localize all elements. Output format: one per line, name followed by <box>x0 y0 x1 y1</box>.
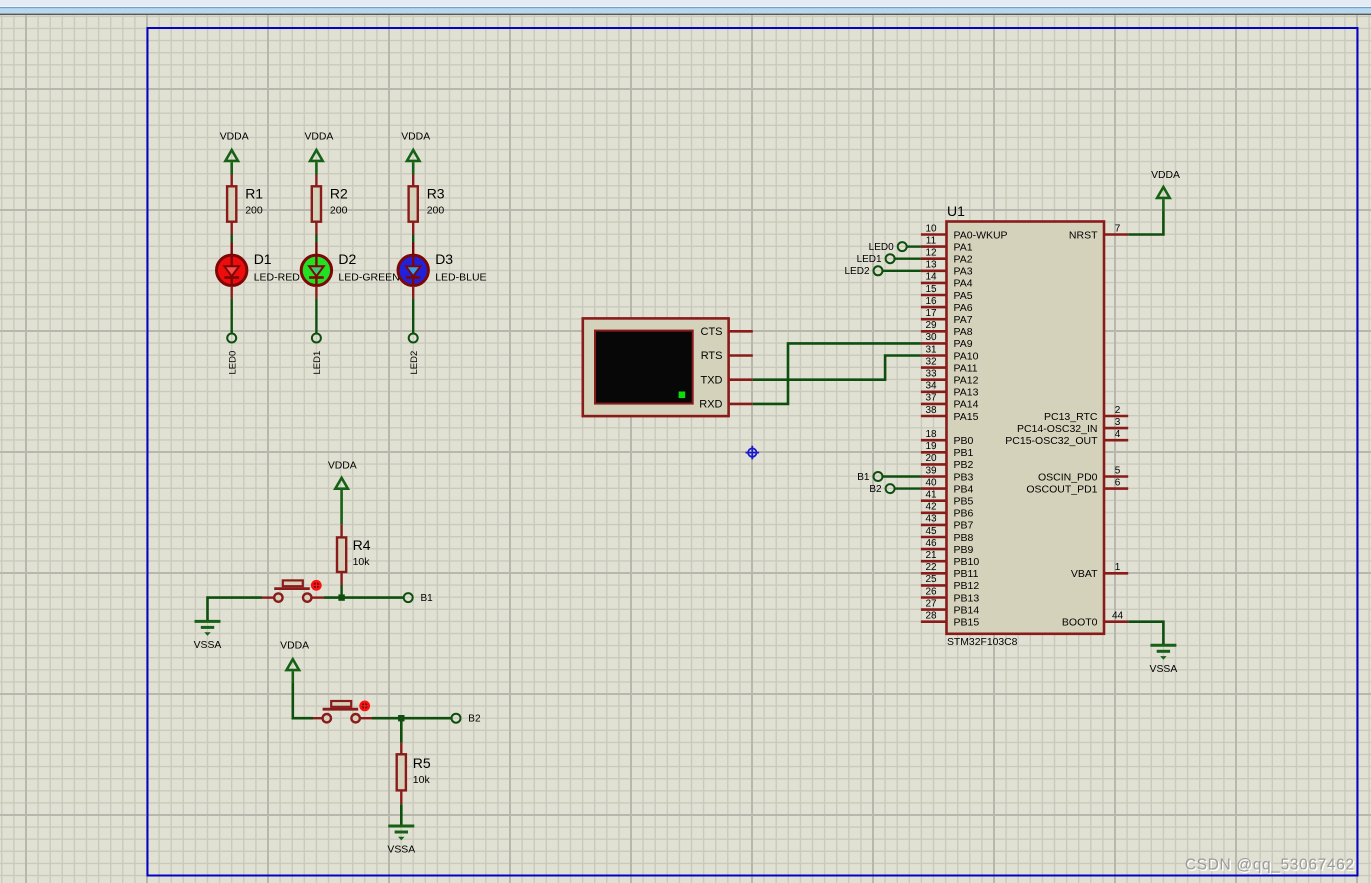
svg-text:RTS: RTS <box>701 350 723 362</box>
svg-text:13: 13 <box>925 260 937 271</box>
wire <box>412 286 414 333</box>
pin RXD (terminal) <box>699 399 753 411</box>
svg-text:PA15: PA15 <box>954 411 979 423</box>
svg-text:PC15-OSC32_OUT: PC15-OSC32_OUT <box>1005 435 1098 447</box>
terminal B2 <box>869 484 894 495</box>
svg-text:PA14: PA14 <box>954 399 979 411</box>
svg-text:PB4: PB4 <box>954 483 974 495</box>
wire <box>315 223 317 243</box>
toolbar strip <box>0 0 1371 15</box>
svg-text:PA7: PA7 <box>954 314 973 326</box>
pin 15 PA5 <box>921 284 973 302</box>
svg-text:PA5: PA5 <box>954 290 973 302</box>
svg-text:LED2: LED2 <box>844 266 869 277</box>
svg-text:25: 25 <box>925 574 937 585</box>
svg-text:41: 41 <box>925 490 937 501</box>
power symbol VDDA (R4 branch) <box>328 460 357 524</box>
svg-text:200: 200 <box>245 205 263 217</box>
pin 39 PB3 <box>921 465 974 483</box>
power symbol VDDA (R3 branch) <box>401 132 430 175</box>
svg-text:TXD: TXD <box>701 374 723 386</box>
svg-text:PA13: PA13 <box>954 387 979 399</box>
pin RTS (terminal) <box>701 350 753 362</box>
terminal LED1 <box>312 334 323 375</box>
svg-text:PB14: PB14 <box>954 604 980 616</box>
pin 22 PB11 <box>921 562 979 580</box>
svg-text:PB12: PB12 <box>954 580 980 592</box>
svg-text:LED1: LED1 <box>857 254 882 265</box>
svg-text:43: 43 <box>925 514 937 525</box>
resistor R2 <box>312 186 348 222</box>
svg-text:LED-GREEN: LED-GREEN <box>338 272 399 284</box>
svg-text:42: 42 <box>925 502 937 513</box>
wire <box>412 175 414 186</box>
svg-text:7: 7 <box>1115 223 1121 234</box>
svg-text:34: 34 <box>925 381 937 392</box>
svg-text:PA8: PA8 <box>954 326 973 338</box>
ground VSSA (R5) <box>387 826 415 856</box>
svg-text:D2: D2 <box>338 251 356 267</box>
svg-text:LED0: LED0 <box>869 242 894 253</box>
LED D2 LED-GREEN <box>301 243 399 287</box>
svg-text:PB2: PB2 <box>954 459 974 471</box>
svg-text:R2: R2 <box>330 186 348 202</box>
svg-text:29: 29 <box>925 320 937 331</box>
pin 1 VBAT <box>1071 562 1128 580</box>
terminal B2 <box>452 714 481 725</box>
svg-text:PB1: PB1 <box>954 447 974 459</box>
svg-text:LED0: LED0 <box>228 351 239 375</box>
svg-text:14: 14 <box>925 272 937 283</box>
power symbol VDDA (NRST) <box>1151 170 1180 211</box>
pin 19 PB1 <box>921 441 974 459</box>
pin 2 PC13_RTC <box>1044 405 1128 423</box>
pin 41 PB5 <box>921 490 974 508</box>
svg-text:STM32F103C8: STM32F103C8 <box>947 637 1018 648</box>
svg-text:PA4: PA4 <box>954 278 973 290</box>
svg-text:PC14-OSC32_IN: PC14-OSC32_IN <box>1017 423 1098 435</box>
power symbol VDDA (R1 branch) <box>220 132 249 175</box>
pin 5 OSCIN_PD0 <box>1038 465 1128 483</box>
svg-text:PB15: PB15 <box>954 617 980 629</box>
wire (ground leg to button row) <box>208 598 263 622</box>
svg-text:LED-BLUE: LED-BLUE <box>435 272 486 284</box>
svg-text:21: 21 <box>925 550 937 561</box>
terminal LED0 <box>227 334 238 375</box>
svg-text:26: 26 <box>925 586 937 597</box>
svg-text:B2: B2 <box>869 484 882 495</box>
pin 18 PB0 <box>921 429 974 447</box>
wire <box>230 175 232 186</box>
wire (junction to R5) <box>400 718 403 742</box>
svg-text:R4: R4 <box>353 537 371 553</box>
svg-text:BOOT0: BOOT0 <box>1062 617 1098 629</box>
pin 37 PA14 <box>921 393 979 411</box>
svg-text:40: 40 <box>925 477 937 488</box>
wire <box>313 717 372 719</box>
wire <box>340 573 342 598</box>
wire (button to B2 terminal) <box>372 717 451 720</box>
wire <box>895 258 921 260</box>
push button (B1) <box>274 580 322 602</box>
svg-text:VDDA: VDDA <box>328 460 357 471</box>
svg-text:VBAT: VBAT <box>1071 568 1098 580</box>
origin marker <box>746 446 760 460</box>
svg-text:VDDA: VDDA <box>304 132 333 143</box>
svg-text:CTS: CTS <box>701 326 723 338</box>
svg-text:6: 6 <box>1115 477 1121 488</box>
LED D1 LED-RED <box>217 243 301 287</box>
pin 42 PB6 <box>921 502 974 520</box>
pin 43 PB7 <box>921 514 974 532</box>
wire <box>400 743 402 754</box>
svg-text:22: 22 <box>925 562 937 573</box>
svg-text:OSCOUT_PD1: OSCOUT_PD1 <box>1026 483 1097 495</box>
pin 3 PC14-OSC32_IN <box>1017 417 1128 435</box>
pin 28 PB15 <box>921 611 979 629</box>
pin 17 PA7 <box>921 308 973 326</box>
svg-text:VSSA: VSSA <box>194 640 222 651</box>
svg-text:R5: R5 <box>413 755 431 771</box>
pin 20 PB2 <box>921 453 974 471</box>
terminal B1 <box>404 593 433 604</box>
terminal B1 <box>857 472 882 483</box>
wire <box>315 175 317 186</box>
push button (B2) <box>323 701 371 723</box>
power symbol VDDA (B2 branch) <box>280 641 309 683</box>
pin 46 PB9 <box>921 538 974 556</box>
svg-text:PA6: PA6 <box>954 302 973 314</box>
svg-text:31: 31 <box>925 344 937 355</box>
svg-text:44: 44 <box>1112 611 1124 622</box>
svg-text:200: 200 <box>427 205 445 217</box>
pin 4 PC15-OSC32_OUT <box>1005 429 1128 447</box>
svg-text:PB7: PB7 <box>954 520 974 532</box>
pin 34 PA13 <box>921 381 979 399</box>
pin 26 PB13 <box>921 586 979 604</box>
svg-text:1: 1 <box>1115 562 1121 573</box>
svg-text:10k: 10k <box>353 556 371 568</box>
microcontroller U1 STM32F103C8 <box>947 203 1105 648</box>
svg-text:U1: U1 <box>947 203 965 219</box>
svg-text:20: 20 <box>925 453 937 464</box>
svg-text:PB0: PB0 <box>954 435 974 447</box>
svg-text:D1: D1 <box>254 251 272 267</box>
svg-text:LED2: LED2 <box>409 351 420 375</box>
svg-text:R1: R1 <box>245 186 263 202</box>
wire TXD to PA10 <box>753 356 921 380</box>
svg-text:B1: B1 <box>421 593 434 604</box>
svg-text:5: 5 <box>1115 465 1121 476</box>
pin 27 PB14 <box>921 598 979 616</box>
svg-text:37: 37 <box>925 393 937 404</box>
pin 10 PA0-WKUP <box>921 223 1008 241</box>
LED D3 LED-BLUE <box>398 243 487 287</box>
wire (button to B1 terminal) <box>324 596 404 599</box>
svg-text:3: 3 <box>1115 417 1121 428</box>
terminal LED2 <box>844 266 882 277</box>
svg-text:15: 15 <box>925 284 937 295</box>
ground VSSA (BOOT0) <box>1150 645 1178 675</box>
svg-text:RXD: RXD <box>699 399 722 411</box>
wire <box>883 475 921 477</box>
svg-text:PB10: PB10 <box>954 556 980 568</box>
svg-text:PA0-WKUP: PA0-WKUP <box>954 229 1008 241</box>
svg-text:D3: D3 <box>435 251 453 267</box>
svg-text:PB9: PB9 <box>954 544 974 556</box>
svg-text:PA2: PA2 <box>954 254 973 266</box>
terminal LED2 <box>409 334 420 375</box>
svg-text:30: 30 <box>925 332 937 343</box>
svg-text:VDDA: VDDA <box>280 641 309 652</box>
svg-text:19: 19 <box>925 441 937 452</box>
svg-text:B1: B1 <box>857 472 870 483</box>
svg-text:VDDA: VDDA <box>401 132 430 143</box>
wire BOOT0 to ground <box>1128 622 1163 646</box>
svg-text:2: 2 <box>1115 405 1121 416</box>
pin 13 PA3 <box>921 260 973 278</box>
terminal LED0 <box>869 242 907 253</box>
power symbol VDDA (R2 branch) <box>304 132 333 175</box>
pin 31 PA10 <box>921 344 979 362</box>
pin 45 PB8 <box>921 526 974 544</box>
svg-text:VSSA: VSSA <box>387 845 415 856</box>
svg-text:PA9: PA9 <box>954 338 973 350</box>
svg-text:10k: 10k <box>413 774 431 786</box>
resistor R1 <box>227 186 263 222</box>
svg-text:LED1: LED1 <box>312 351 323 375</box>
pin 44 BOOT0 <box>1062 611 1128 629</box>
terminal LED1 <box>857 254 895 265</box>
wire NRST to VDDA <box>1128 211 1163 235</box>
svg-text:PA3: PA3 <box>954 266 973 278</box>
svg-text:LED-RED: LED-RED <box>254 272 301 284</box>
pin 32 PA11 <box>921 356 978 374</box>
pin 12 PA2 <box>921 248 973 266</box>
svg-text:45: 45 <box>925 526 937 537</box>
wire <box>262 596 324 598</box>
svg-text:VDDA: VDDA <box>220 132 249 143</box>
svg-text:PB5: PB5 <box>954 496 974 508</box>
svg-text:PA10: PA10 <box>954 350 979 362</box>
wire (VDDA to button) <box>293 683 313 718</box>
svg-text:R3: R3 <box>427 186 445 202</box>
pin 11 PA1 <box>921 235 973 253</box>
wire <box>230 286 232 333</box>
wire <box>907 245 921 247</box>
pin 38 PA15 <box>921 405 979 423</box>
wire <box>340 524 342 536</box>
svg-text:4: 4 <box>1115 429 1121 440</box>
svg-text:28: 28 <box>925 611 937 622</box>
svg-text:PA12: PA12 <box>954 375 979 387</box>
pin 21 PB10 <box>921 550 979 568</box>
resistor R4 <box>337 537 371 572</box>
svg-text:200: 200 <box>330 205 348 217</box>
svg-text:PB13: PB13 <box>954 592 980 604</box>
svg-text:32: 32 <box>925 356 937 367</box>
pin TXD (terminal) <box>701 374 753 386</box>
svg-text:27: 27 <box>925 598 937 609</box>
pin CTS (terminal) <box>701 326 753 338</box>
svg-text:18: 18 <box>925 429 937 440</box>
svg-text:PA1: PA1 <box>954 241 973 253</box>
svg-text:12: 12 <box>925 248 937 259</box>
pin 6 OSCOUT_PD1 <box>1026 477 1128 495</box>
pin 29 PA8 <box>921 320 973 338</box>
pin 16 PA6 <box>921 296 973 314</box>
svg-text:VSSA: VSSA <box>1150 664 1178 675</box>
wire RXD to PA9 <box>753 343 921 404</box>
junction <box>338 594 344 600</box>
svg-text:PB3: PB3 <box>954 471 974 483</box>
svg-text:46: 46 <box>925 538 937 549</box>
resistor R5 <box>397 754 431 790</box>
wire <box>315 286 317 333</box>
pin 33 PA12 <box>921 369 979 387</box>
pin 40 PB4 <box>921 477 974 495</box>
wire <box>400 791 402 826</box>
svg-text:PA11: PA11 <box>954 362 978 374</box>
wire <box>895 487 921 489</box>
svg-text:38: 38 <box>925 405 937 416</box>
ground VSSA (button B1) <box>194 621 222 651</box>
svg-text:PC13_RTC: PC13_RTC <box>1044 411 1098 423</box>
wire <box>412 223 414 243</box>
svg-text:CSDN @qq_53067462: CSDN @qq_53067462 <box>1185 857 1355 874</box>
svg-text:17: 17 <box>925 308 937 319</box>
svg-text:39: 39 <box>925 465 937 476</box>
pin 7 NRST <box>1069 223 1128 241</box>
wire <box>883 270 921 272</box>
svg-text:OSCIN_PD0: OSCIN_PD0 <box>1038 471 1098 483</box>
svg-text:PB11: PB11 <box>954 568 979 580</box>
watermark <box>1185 857 1356 875</box>
svg-text:PB8: PB8 <box>954 532 974 544</box>
pin 14 PA4 <box>921 272 973 290</box>
svg-text:11: 11 <box>926 235 937 246</box>
svg-text:PB6: PB6 <box>954 508 974 520</box>
virtual terminal instrument <box>583 318 729 416</box>
wire <box>230 223 232 243</box>
pin 25 PB12 <box>921 574 979 592</box>
svg-text:10: 10 <box>925 223 937 234</box>
svg-text:B2: B2 <box>468 714 481 725</box>
resistor R3 <box>409 186 445 222</box>
svg-text:33: 33 <box>925 369 937 380</box>
pin 30 PA9 <box>921 332 973 350</box>
junction <box>398 715 404 721</box>
svg-text:NRST: NRST <box>1069 229 1098 241</box>
svg-text:16: 16 <box>925 296 937 307</box>
svg-text:VDDA: VDDA <box>1151 170 1180 181</box>
